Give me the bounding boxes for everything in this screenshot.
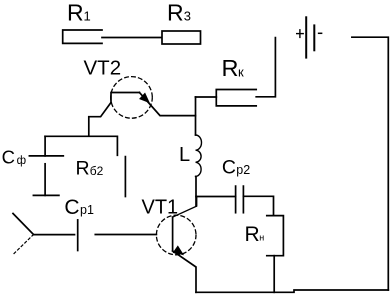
wire Rk right lead — [256, 38, 275, 97]
capacitor Cp1 plate — [77, 220, 79, 251]
svg-text:R: R — [67, 0, 84, 26]
capacitor Cp2 left plate — [235, 186, 237, 213]
wire L top lead — [195, 97, 197, 135]
transistor VT2 left lead — [89, 103, 111, 137]
inductor L coil — [196, 135, 202, 176]
wire Rk left lead — [195, 96, 216, 98]
antenna — [13, 214, 34, 256]
svg-text:R: R — [167, 0, 184, 26]
svg-text:VT1: VT1 — [142, 196, 179, 218]
wire base bus — [45, 136, 117, 155]
battery plus plate — [305, 17, 307, 57]
svg-text:С: С — [2, 146, 15, 167]
capacitor Cp2 right plate — [242, 186, 244, 213]
svg-text:С: С — [64, 196, 79, 219]
svg-text:С: С — [222, 156, 236, 178]
wire Rn bottom lead — [273, 256, 275, 293]
svg-text:L: L — [179, 144, 190, 166]
svg-text:3: 3 — [184, 9, 191, 24]
wire antenna to Cp1 — [34, 234, 75, 236]
transistor VT1 collector — [173, 197, 197, 218]
wire bottom right segment — [196, 290, 388, 292]
capacitor Cp1 label — [64, 196, 94, 219]
resistor R3 — [162, 31, 201, 44]
svg-text:к: к — [238, 65, 244, 80]
transistor VT1 dashed circle — [156, 215, 196, 255]
capacitor Cf top plate — [29, 155, 63, 157]
resistor Rn (open left box) — [267, 216, 284, 256]
capacitor Cf label — [2, 146, 26, 167]
svg-text:R: R — [222, 55, 239, 81]
svg-text:р2: р2 — [236, 163, 250, 177]
transistor VT2 emitter line — [139, 93, 195, 116]
wire Cp1 to VT1 base — [95, 234, 156, 236]
svg-text:н: н — [259, 232, 264, 242]
svg-text:р1: р1 — [80, 203, 94, 217]
capacitor Cf top lead — [44, 136, 46, 156]
resistor Rk label — [222, 55, 245, 81]
transistor VT2 emitter arrow — [140, 93, 149, 102]
resistor Rn label — [245, 223, 265, 246]
resistor R1 label — [67, 0, 91, 26]
resistor Rb2 label — [76, 158, 104, 180]
svg-text:1: 1 — [84, 9, 91, 24]
svg-text:VT2: VT2 — [84, 56, 122, 79]
resistor Rb2 lead — [124, 157, 126, 197]
transistor VT1 emitter — [173, 251, 196, 292]
svg-text:R: R — [245, 223, 260, 246]
capacitor Cf bottom plate — [33, 194, 59, 196]
wire Cp2 to Rn — [243, 196, 273, 215]
transistor VT2 base bar — [111, 93, 139, 103]
resistor R3 label — [167, 0, 191, 26]
battery plus sign — [297, 30, 304, 38]
transistor VT1 base bar — [172, 217, 174, 251]
capacitor Cp2 label — [222, 156, 250, 178]
capacitor Cf bottom lead — [44, 164, 46, 196]
transistor VT2 dashed circle — [111, 77, 153, 119]
wire top right — [352, 37, 388, 290]
battery minus sign — [319, 32, 322, 34]
svg-text:R: R — [76, 158, 90, 180]
wire L to Cp2 — [196, 196, 236, 198]
resistor Rk (open right box) — [216, 90, 256, 106]
battery minus plate — [313, 25, 315, 50]
transistor VT1 emitter arrow — [173, 246, 183, 254]
wire R1-R3 — [102, 37, 162, 39]
resistor R1 (open right box) — [63, 30, 102, 43]
svg-text:ф: ф — [17, 155, 26, 167]
svg-text:б2: б2 — [90, 164, 104, 178]
wire L bottom lead — [195, 176, 197, 206]
